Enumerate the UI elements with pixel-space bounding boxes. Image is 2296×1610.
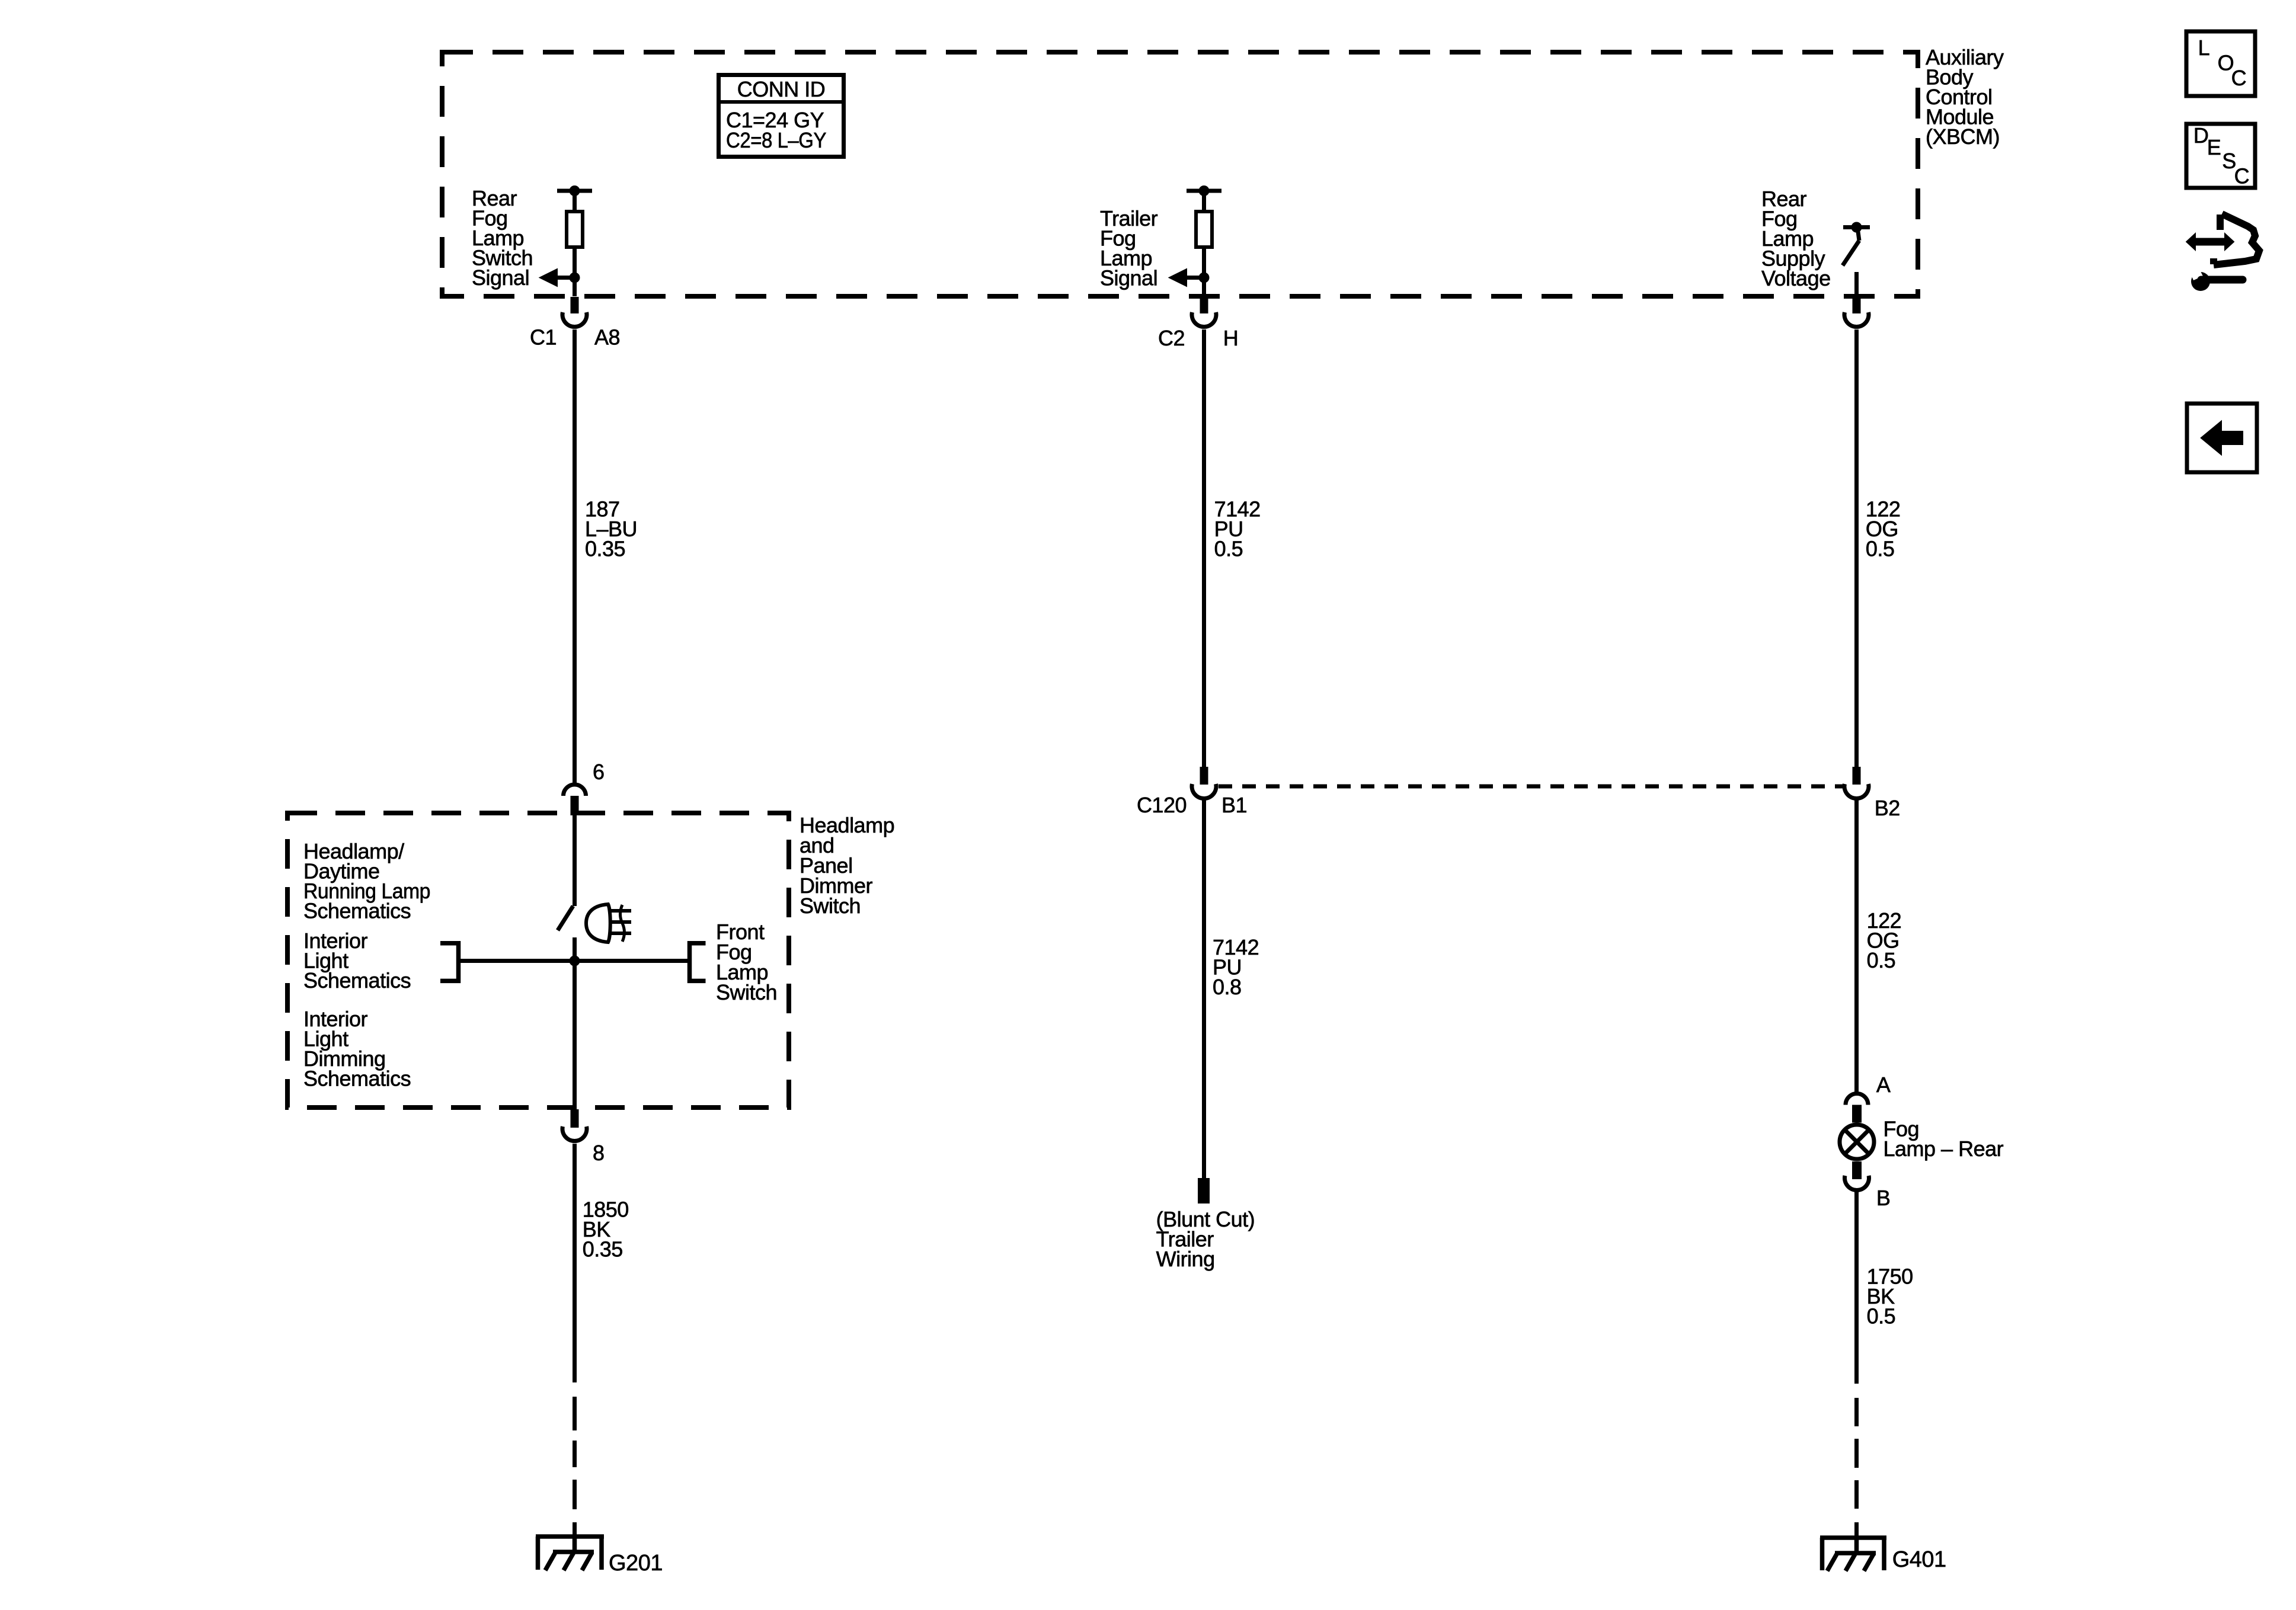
svg-text:H: H	[1223, 326, 1239, 350]
wire: connector 6 pin to switch contact	[573, 815, 577, 906]
svg-text:B1: B1	[1221, 793, 1247, 817]
wire: 187 circuit, C1 to connector 6	[573, 329, 577, 783]
svg-text:G201: G201	[609, 1551, 663, 1576]
label: 122 OG 0.5 (lower)	[1867, 908, 1902, 972]
front fog lamp icon: beams	[611, 909, 631, 913]
svg-text:0.5: 0.5	[1866, 537, 1895, 561]
switch blade	[1843, 241, 1859, 265]
node: junction dot at signal tap	[570, 273, 580, 283]
svg-text:C2=8 L–GY: C2=8 L–GY	[726, 128, 826, 152]
wire: 122 circuit, XBCM to B2	[1854, 329, 1859, 767]
wire: 7142 circuit, C2 to C120	[1202, 329, 1206, 767]
connector C1 pin A8: female cup	[562, 312, 587, 327]
svg-text:Voltage: Voltage	[1761, 266, 1831, 290]
wire: left column feed tick	[557, 189, 592, 193]
node: junction with interior light wire	[570, 956, 580, 966]
wire: middle column feed tick	[1187, 189, 1221, 193]
connector (rear fog lamp supply): male pin	[1853, 297, 1861, 313]
label: (Blunt Cut) Trailer Wiring	[1156, 1207, 1255, 1271]
wire: 1850 circuit to ground	[573, 1144, 577, 1382]
icon: LOC box	[2186, 31, 2255, 96]
svg-text:0.5: 0.5	[1867, 1304, 1896, 1329]
node: right tick junction dot	[1851, 222, 1862, 233]
connector C120 pin B1: female cup	[1192, 784, 1216, 799]
arrow head pointing left	[1168, 268, 1187, 287]
connector C2 pin H: male pin	[1200, 297, 1208, 313]
svg-text:8: 8	[593, 1141, 605, 1165]
wire: dashed ground lead G201	[573, 1397, 577, 1537]
svg-text:C1: C1	[530, 325, 557, 350]
svg-text:Schematics: Schematics	[303, 968, 411, 993]
connector B: male pin	[1852, 1161, 1862, 1179]
svg-text:A: A	[1876, 1073, 1891, 1097]
label: Front Fog Lamp Switch	[716, 920, 777, 1004]
svg-text:0.8: 0.8	[1213, 975, 1242, 999]
ground G401	[1820, 1538, 1886, 1571]
label: Interior Light Dimming Schematics	[303, 1007, 411, 1091]
bracket: to front fog lamp switch	[690, 943, 706, 981]
ground G201	[536, 1537, 604, 1570]
label: Headlamp/ Daytime Running Lamp Schematics	[303, 839, 430, 923]
label: 122 OG 0.5	[1866, 497, 1901, 561]
svg-text:Switch: Switch	[716, 980, 777, 1004]
svg-text:0.35: 0.35	[585, 537, 625, 561]
wire: switch lower contact down	[573, 937, 577, 1107]
fog lamp rear: X filament	[1846, 1131, 1868, 1153]
connector 8: male pin	[571, 1109, 579, 1128]
connector A: female cup over lamp	[1846, 1094, 1868, 1105]
svg-text:Schematics: Schematics	[303, 899, 411, 923]
label: 7142 PU 0.5	[1214, 497, 1261, 561]
wire: tick to resistor	[573, 191, 577, 211]
connector B2: female cup	[1844, 784, 1869, 799]
wire: tick to resistor	[1202, 191, 1206, 211]
connector 6: female cup over box	[564, 785, 586, 796]
label: Trailer Fog Lamp Signal	[1100, 206, 1158, 290]
blunt cut terminal	[1198, 1178, 1210, 1204]
wire: resistor to XBCM border	[1202, 249, 1206, 296]
node: left tick junction dot	[570, 185, 580, 196]
wire: dashed inline connector link C120 to B2	[1219, 785, 1843, 789]
icon: DESC box	[2186, 123, 2255, 188]
connector 8: female cup	[562, 1126, 587, 1141]
label: Headlamp and Panel Dimmer Switch	[800, 813, 894, 918]
resistor: rear fog lamp switch signal pull-up	[567, 212, 583, 247]
wire: right column feed tick	[1843, 225, 1870, 229]
svg-text:E: E	[2207, 135, 2221, 159]
label: 187 L-BU 0.35	[585, 497, 637, 561]
node: junction dot at trailer signal tap	[1199, 273, 1210, 283]
svg-text:6: 6	[593, 760, 605, 784]
connector B2: male pin	[1853, 767, 1861, 785]
headlamp and panel dimmer switch dashed box	[287, 813, 789, 1108]
resistor: trailer fog lamp signal pull-up	[1196, 212, 1212, 247]
label: 1750 BK 0.5	[1867, 1265, 1913, 1329]
wire: arrow shaft (trailer fog lamp signal)	[1185, 276, 1204, 280]
svg-text:CONN ID: CONN ID	[737, 77, 826, 101]
front fog lamp icon: fog squiggle	[621, 905, 625, 942]
label: Fog Lamp - Rear	[1884, 1116, 2004, 1161]
connector A: male pin	[1852, 1105, 1862, 1123]
svg-text:0.5: 0.5	[1867, 948, 1896, 972]
label: Interior Light Schematics	[303, 929, 411, 993]
CONN ID table	[717, 75, 846, 157]
svg-text:Signal: Signal	[472, 265, 529, 290]
svg-text:B: B	[1876, 1186, 1891, 1210]
wire: horizontal interior-light dimmer wire	[461, 959, 688, 963]
svg-text:L: L	[2198, 36, 2210, 60]
connector (rear fog lamp supply): female cup	[1844, 312, 1869, 327]
wire: 122 circuit B2 to fog lamp	[1854, 800, 1859, 1092]
svg-text:0.5: 0.5	[1214, 537, 1243, 561]
svg-text:G401: G401	[1892, 1547, 1946, 1572]
svg-text:C2: C2	[1158, 326, 1185, 350]
label: Auxiliary Body Control Module (XBCM)	[1926, 45, 2004, 149]
fog lamp rear: bulb circle	[1840, 1125, 1874, 1159]
wire: 7142 PU 0.8 to blunt cut	[1202, 800, 1206, 1179]
connector C2 pin H: female cup	[1192, 312, 1216, 327]
bracket: to interior light schematics	[440, 943, 459, 981]
label: Rear Fog Lamp Switch Signal	[472, 186, 533, 290]
connector 6: male pin into switch box	[571, 796, 579, 815]
svg-text:D: D	[2193, 123, 2209, 148]
icon: back arrow box	[2187, 404, 2257, 472]
wire: resistor to XBCM border	[573, 249, 577, 296]
svg-text:B2: B2	[1875, 796, 1900, 820]
svg-text:Switch: Switch	[800, 894, 861, 918]
wire: arrow shaft (rear fog lamp switch signal)	[556, 276, 575, 280]
svg-text:Schematics: Schematics	[303, 1067, 411, 1091]
svg-text:C: C	[2231, 66, 2247, 90]
svg-text:Lamp – Rear: Lamp – Rear	[1884, 1137, 2004, 1161]
svg-text:Wiring: Wiring	[1156, 1247, 1215, 1271]
wire: 1750 circuit to ground	[1854, 1191, 1859, 1384]
wire: dashed ground lead G401	[1854, 1398, 1859, 1538]
svg-text:A8: A8	[594, 325, 620, 350]
node: middle tick junction dot	[1199, 185, 1210, 196]
label: Rear Fog Lamp Supply Voltage	[1761, 187, 1831, 290]
connector B: female cup	[1845, 1176, 1869, 1190]
connector C1 pin A8: male pin	[571, 297, 579, 313]
wire: switch lower contact to border	[1854, 272, 1859, 296]
switch blade: front fog lamp switch	[558, 906, 573, 930]
label: 1850 BK 0.35	[583, 1198, 629, 1262]
icon: harness navigation (double arrow with wrench)	[2186, 214, 2259, 291]
svg-text:C120: C120	[1137, 793, 1187, 817]
front fog lamp icon: lens	[586, 904, 610, 942]
svg-text:Signal: Signal	[1100, 266, 1157, 290]
switch: rear fog lamp supply driver, pivot stub	[1857, 228, 1859, 241]
svg-text:(XBCM): (XBCM)	[1926, 124, 2000, 149]
connector C120 pin B1: male pin	[1200, 767, 1208, 785]
arrow head pointing left	[539, 268, 558, 287]
svg-text:C: C	[2234, 164, 2250, 188]
XBCM module dashed box	[442, 52, 1918, 296]
label: 7142 PU 0.8	[1213, 935, 1259, 999]
svg-text:0.35: 0.35	[583, 1237, 623, 1262]
